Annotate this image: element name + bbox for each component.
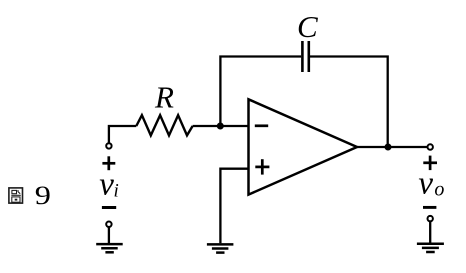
vo minus sign: [423, 206, 436, 209]
terminal circle vo top: [428, 144, 433, 149]
wire feedback top-left segment: [220, 57, 301, 127]
capacitor C1 right plate: [307, 41, 310, 72]
node junction dot at inverting input: [217, 123, 224, 130]
resistor R: [136, 115, 192, 135]
wire non-inverting input to ground: [220, 169, 248, 244]
wire vo bottom terminal to ground: [429, 222, 431, 243]
op-amp U1 triangle: [249, 99, 358, 194]
ground under vo: [417, 244, 444, 252]
wire resistor to op-amp inverting input: [193, 125, 249, 127]
svg-text:i: i: [114, 181, 119, 202]
ground under vi: [96, 244, 123, 252]
svg-text:R: R: [154, 80, 174, 115]
terminal circle vi top: [106, 143, 111, 148]
op-amp inverting input minus sign: [255, 124, 268, 127]
terminal circle vo bottom: [428, 216, 433, 221]
wire op-amp output: [357, 146, 427, 148]
svg-text:9: 9: [35, 182, 51, 211]
op-amp non-inverting input plus sign: [255, 159, 269, 174]
vi minus sign: [102, 206, 116, 209]
svg-text:v: v: [418, 165, 433, 201]
ground under op-amp plus input: [207, 244, 234, 252]
figure label glyph 圖: [9, 188, 23, 203]
wire vi bottom terminal to ground: [108, 227, 110, 243]
svg-text:v: v: [99, 166, 114, 202]
wire input left segment: [109, 126, 136, 143]
svg-text:C: C: [297, 9, 318, 44]
vo plus sign: [423, 156, 437, 171]
node junction dot at output: [385, 144, 392, 151]
vi plus sign: [102, 156, 115, 170]
capacitor C1 left plate: [301, 41, 304, 72]
wire feedback top-right segment: [310, 57, 388, 148]
terminal circle vi bottom: [106, 222, 111, 227]
svg-text:o: o: [434, 178, 444, 200]
